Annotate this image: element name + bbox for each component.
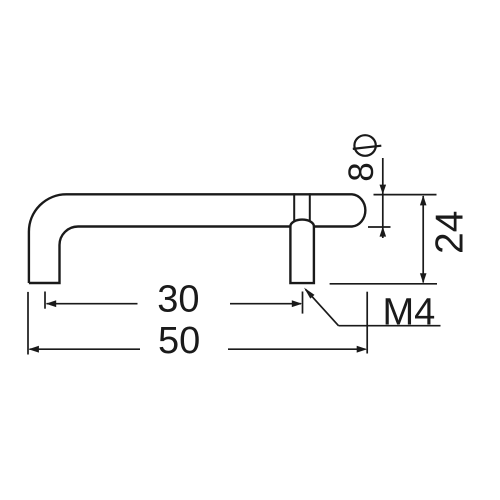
24 dimension vertical line <box>422 196 424 283</box>
50 extension line left (leg outer edge) <box>27 292 29 355</box>
arrowhead 24 top (points up) <box>420 195 427 205</box>
30 extension line left (leg center) <box>44 292 46 309</box>
arrowhead 24 bottom (points down) <box>420 273 427 283</box>
50 extension line right (bar right end) <box>366 292 368 354</box>
M4 leader line diagonal <box>306 289 339 325</box>
svg-text:24: 24 <box>428 211 471 254</box>
post dome fillet over bar bottom line <box>290 220 314 227</box>
30 dimension line left segment <box>47 303 138 305</box>
arrowhead 8dia top (points down to bar top) <box>380 185 387 195</box>
24 bottom extension line <box>330 283 437 285</box>
arrowhead 30 left (points left) <box>46 300 56 307</box>
30 extension line right (post center) <box>302 292 304 314</box>
50 dimension line right segment <box>228 348 366 350</box>
svg-text:M4: M4 <box>383 292 436 334</box>
collar line right crossing bar <box>309 193 311 221</box>
8dia bottom extension tick <box>368 226 391 228</box>
8dia dimension vertical line <box>382 158 384 238</box>
label 8dia: phi symbol stem <box>353 146 382 149</box>
8dia top extension tick / 24 top extension line <box>374 194 437 196</box>
arrowhead 8dia bottom (points up to bar bottom) <box>380 227 387 237</box>
arrowhead 50 right (points right) <box>357 346 367 353</box>
arrowhead 50 left (points left) <box>29 346 39 353</box>
M4 leader shelf <box>339 325 441 327</box>
post (threaded boss) below bar near right end <box>290 226 314 283</box>
30 dimension line right segment <box>230 303 301 305</box>
collar line left crossing bar <box>293 193 295 221</box>
50 dimension line left segment <box>30 348 141 350</box>
handle outline: bent bar, left leg and top bar with round right cap <box>29 194 365 283</box>
svg-text:8: 8 <box>342 162 381 181</box>
svg-text:50: 50 <box>158 320 200 362</box>
handle outline: bar bottom line + inner corner + leg inner edge + leg bottom <box>29 227 290 284</box>
arrowhead M4 leader (points up-left to post bottom) <box>304 288 315 299</box>
label 8dia: phi symbol circle <box>354 135 375 156</box>
arrowhead 30 right (points right) <box>292 300 302 307</box>
svg-text:30: 30 <box>157 278 199 320</box>
